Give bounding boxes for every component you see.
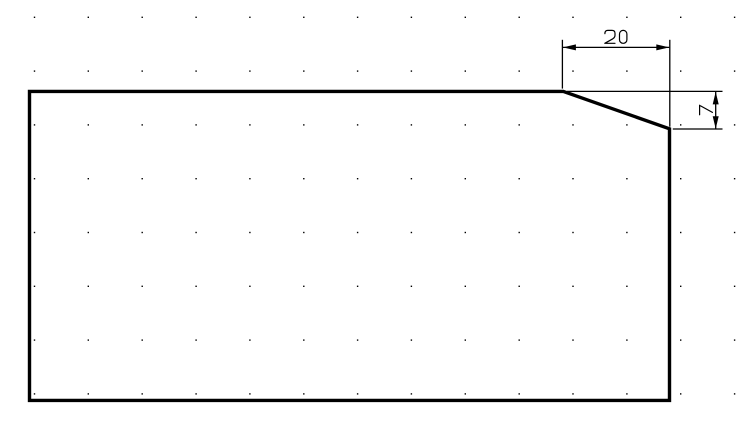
dim 20 left arrowhead (563, 44, 576, 50)
dim text 7 (rotated 90 deg CCW) (700, 105, 713, 115)
dim 7 dimension line (715, 92, 717, 129)
dim 7 upper extension line (567, 90, 723, 92)
dim 20 right extension line (669, 40, 671, 127)
dim 20 left extension line (561, 40, 563, 89)
dim 20 right arrowhead (656, 44, 669, 50)
part outline with chamfered top-right corner (30, 91, 670, 400)
dim text 20 (605, 30, 627, 43)
dim 7 bottom arrowhead (713, 116, 719, 129)
dim 20 dimension line (563, 46, 669, 48)
dim 7 lower extension line (673, 128, 723, 130)
dim 7 top arrowhead (713, 92, 719, 105)
